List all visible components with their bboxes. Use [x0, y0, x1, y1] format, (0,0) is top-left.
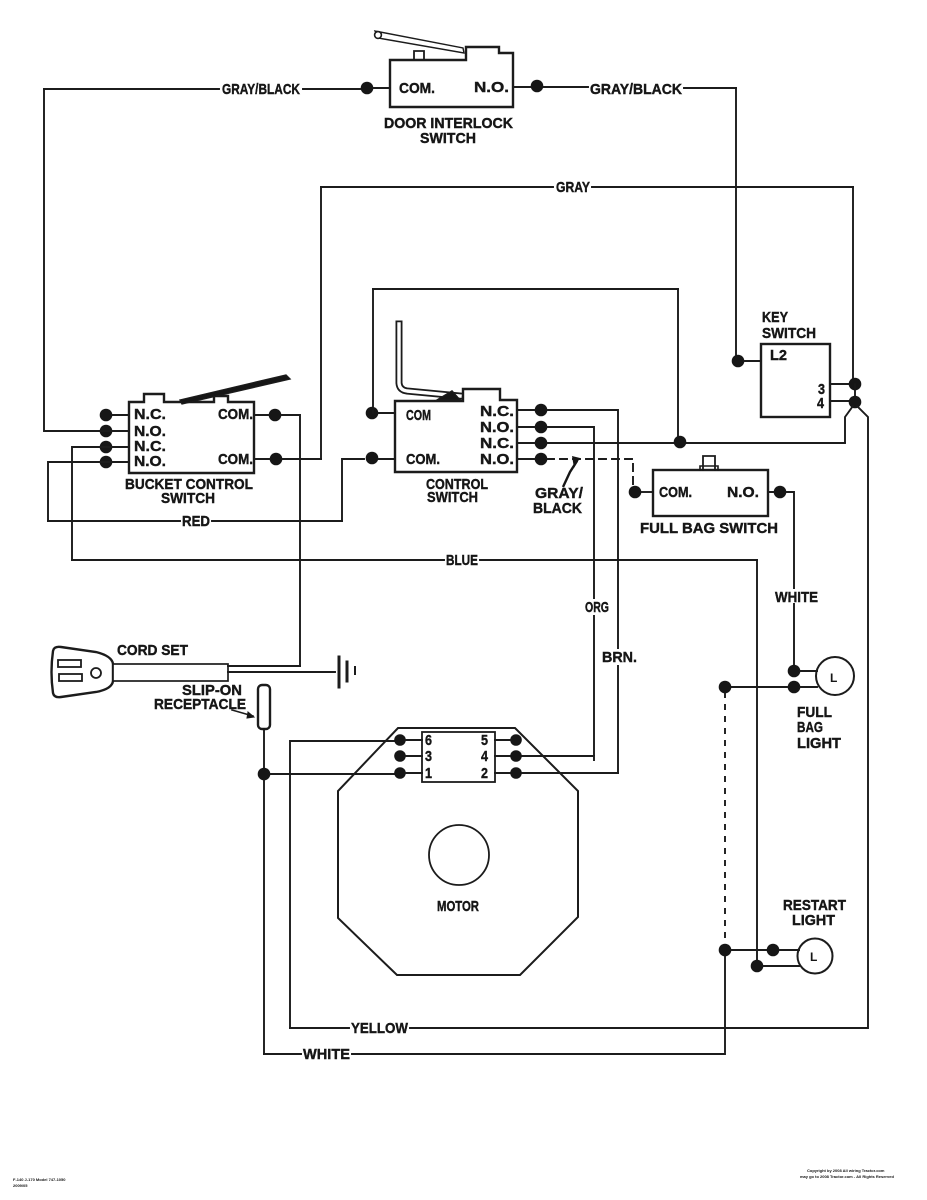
wire gray/black dashed jumper to full bag switch — [547, 459, 633, 486]
svg-text:2: 2 — [481, 765, 488, 782]
node door N.O. terminal — [531, 80, 544, 93]
svg-text:SWITCH: SWITCH — [427, 489, 478, 506]
wire receptacle down to junction — [263, 729, 265, 768]
svg-text:N.O.: N.O. — [727, 484, 759, 501]
wire gray right vertical to key switch pin 3 — [852, 187, 854, 384]
wire BLUE line — [72, 559, 757, 561]
wire top loop vertical down to junction — [677, 289, 679, 442]
wire control lower COM stub — [378, 458, 395, 460]
wire key pin3-pin4 link — [854, 384, 856, 402]
node motor pin2 — [510, 767, 522, 779]
door interlock actuator button — [414, 51, 424, 59]
node full bag COM terminal — [629, 486, 642, 499]
node door COM terminal — [361, 82, 374, 95]
node key pin3 terminal — [849, 378, 862, 391]
svg-text:KEY: KEY — [762, 309, 788, 326]
wire bucket pin3 to blue — [72, 447, 129, 560]
gray/black jumper arrow — [563, 461, 577, 487]
wire bucket pin2 stub — [100, 430, 129, 432]
node bucket N.C. pin1 — [100, 409, 113, 422]
wire key pin3 stub — [830, 383, 849, 385]
receptacle pointer line — [232, 710, 253, 716]
wire motor pin6 stub — [405, 739, 422, 741]
door interlock switch U1 body — [390, 47, 513, 107]
node control N.O. pin2 — [535, 421, 548, 434]
svg-text:WHITE: WHITE — [775, 589, 818, 606]
wire motor pin5 stub — [495, 739, 511, 741]
svg-text:BLUE: BLUE — [446, 552, 478, 569]
node control N.C. pin1 — [535, 404, 548, 417]
wire dashed vertical to restart light — [724, 693, 726, 945]
node motor pin5 — [510, 734, 522, 746]
svg-text:N.O.: N.O. — [480, 419, 514, 436]
svg-text:COM.: COM. — [406, 451, 440, 468]
svg-text:may go to 2008 Tractor.com - A: may go to 2008 Tractor.com - All Rights … — [800, 1174, 894, 1179]
svg-text:F-140 J-170 Model 747-1050: F-140 J-170 Model 747-1050 — [13, 1177, 66, 1182]
node junction top-loop / pin3 wire — [674, 436, 687, 449]
label BRN. — [599, 649, 640, 665]
node receptacle / motor pin1 junction — [258, 768, 271, 781]
svg-text:CORD SET: CORD SET — [117, 642, 188, 659]
wire restart corner down to white line — [724, 956, 726, 1052]
wire door COM stub — [373, 87, 390, 89]
svg-text:YELLOW: YELLOW — [351, 1020, 409, 1037]
motor M1 octagon body — [338, 728, 578, 975]
svg-text:SWITCH: SWITCH — [762, 325, 816, 342]
svg-text:N.O.: N.O. — [474, 79, 509, 96]
svg-text:5: 5 — [481, 732, 488, 749]
node bucket N.O. pin4 — [100, 456, 113, 469]
wire gray left vertical to bucket lower COM — [320, 187, 322, 459]
svg-text:Copyright by 2008 All wiring T: Copyright by 2008 All wiring Tractor.com — [807, 1168, 885, 1173]
cord set cable jacket — [113, 664, 228, 681]
node motor pin4 — [510, 750, 522, 762]
node key switch L1 terminal — [732, 355, 745, 368]
wire restart terminal a stub — [779, 949, 799, 951]
wire motor pin6 to yellow — [290, 741, 394, 1028]
node control N.C. pin3 — [535, 437, 548, 450]
svg-text:RECEPTACLE: RECEPTACLE — [154, 696, 246, 713]
svg-text:MOTOR: MOTOR — [437, 898, 479, 915]
node control N.O. pin4 — [535, 453, 548, 466]
svg-text:N.C.: N.C. — [134, 406, 166, 423]
motor terminal block — [422, 732, 495, 782]
svg-text:4: 4 — [817, 395, 825, 412]
node motor pin6 — [394, 734, 406, 746]
wire control upper COM stub — [378, 412, 395, 414]
node bucket lower COM terminal — [270, 453, 283, 466]
wire bucket pin1 stub — [112, 414, 129, 416]
wire motor pin1 horizontal — [270, 773, 394, 775]
control switch lever foot — [437, 391, 460, 400]
svg-text:COM.: COM. — [218, 406, 253, 423]
svg-text:WHITE: WHITE — [303, 1046, 350, 1063]
wire motor pin3 stub — [405, 755, 422, 757]
node bucket upper COM terminal — [269, 409, 282, 422]
wire key pin4 jog left to long horizontal — [845, 406, 853, 442]
svg-text:BRN.: BRN. — [602, 649, 637, 666]
control switch S2 body — [395, 389, 517, 472]
node restart light terminal b — [751, 960, 764, 973]
node restart light terminal a — [767, 944, 780, 957]
wire red vertical to control lower COM — [342, 459, 364, 521]
door interlock lever tip roller — [375, 32, 382, 39]
wire control pin4 stub — [517, 458, 535, 460]
wire full bag COM stub — [641, 491, 653, 493]
node full bag light terminal b — [788, 681, 801, 694]
wire control pin1 to BRN vertical — [517, 410, 618, 773]
node restart wire corner — [719, 944, 732, 957]
bucket control switch lever — [180, 375, 290, 404]
wire key pin4 jog right to right-side vertical — [857, 406, 868, 1026]
full bag switch S4 body — [653, 470, 768, 516]
cord set plug ground hole — [91, 668, 101, 678]
svg-text:BLACK: BLACK — [533, 500, 582, 517]
wire key L1 stub — [744, 360, 761, 362]
restart light L2 lamp — [798, 939, 833, 974]
svg-text:3: 3 — [425, 748, 432, 765]
wire YELLOW line — [290, 1027, 868, 1029]
label ORG — [582, 599, 612, 615]
cord set plug prong slot 1 — [58, 660, 81, 667]
wire cord conductor lower — [228, 671, 335, 673]
svg-text:GRAY: GRAY — [556, 179, 590, 196]
slip-on receptacle body — [258, 685, 270, 729]
wire motor pin1 stub — [405, 772, 422, 774]
svg-text:L: L — [810, 950, 817, 964]
node control lower COM terminal — [366, 452, 379, 465]
wire bucket lower COM stub — [254, 458, 270, 460]
svg-text:6: 6 — [425, 732, 432, 749]
svg-text:RED: RED — [182, 513, 210, 530]
node bucket N.O. pin2 — [100, 425, 113, 438]
wire control upper COM vertical up — [372, 289, 374, 413]
svg-text:SWITCH: SWITCH — [420, 130, 476, 147]
node full bag N.O. terminal — [774, 486, 787, 499]
wire RED line — [48, 520, 342, 522]
wire WHITE bottom line — [264, 1053, 725, 1055]
cord set plug prong slot 2 — [59, 674, 82, 681]
wire top loop horizontal — [373, 288, 678, 290]
node motor pin3 — [394, 750, 406, 762]
svg-text:COM.: COM. — [218, 451, 253, 468]
svg-text:4: 4 — [481, 748, 489, 765]
svg-text:GRAY/BLACK: GRAY/BLACK — [222, 81, 300, 98]
wire GRAY/BLACK left segment — [44, 88, 360, 90]
svg-text:N.C.: N.C. — [480, 403, 514, 420]
connector jack J1 bars — [338, 657, 341, 687]
node dashed jumper corner — [719, 681, 732, 694]
svg-text:GRAY/BLACK: GRAY/BLACK — [590, 81, 682, 98]
wire blue vertical down to restart light — [756, 560, 758, 960]
wire bucket pin4 to red — [48, 462, 129, 521]
wire motor pin4 to ORG vertical — [495, 756, 594, 760]
node full bag light terminal a — [788, 665, 801, 678]
svg-text:LIGHT: LIGHT — [792, 912, 835, 929]
svg-text:COM.: COM. — [659, 484, 692, 501]
full bag light L1 lamp — [816, 657, 854, 695]
control switch lever — [399, 324, 460, 396]
svg-text:1: 1 — [425, 765, 432, 782]
svg-text:SWITCH: SWITCH — [161, 490, 215, 507]
wire lamp terminal a stub — [800, 670, 817, 672]
svg-text:COM: COM — [406, 407, 431, 424]
node motor pin1 — [394, 767, 406, 779]
node key pin4 terminal — [849, 396, 862, 409]
wire bucket lower COM to gray vertical — [282, 458, 321, 460]
svg-text:L: L — [830, 671, 837, 685]
wire GRAY/BLACK right segment — [513, 87, 736, 88]
wire control pin2 to ORG vertical — [517, 427, 594, 755]
svg-text:N.C.: N.C. — [480, 435, 514, 452]
wire bucket upper COM down to cord set — [281, 415, 300, 666]
wire restart top horizontal — [731, 949, 767, 951]
door interlock lever — [375, 31, 464, 53]
wire lamp terminal b stub — [800, 686, 817, 688]
node control upper COM terminal — [366, 407, 379, 420]
svg-text:N.O.: N.O. — [480, 451, 514, 468]
wire junction down to white line — [263, 780, 265, 1054]
svg-text:FULL BAG SWITCH: FULL BAG SWITCH — [640, 520, 778, 537]
wire GRAY horizontal — [321, 186, 853, 188]
wire restart terminal b stub — [763, 965, 799, 967]
key switch S3 body — [761, 344, 830, 417]
wire bucket upper COM stub — [254, 414, 269, 416]
wire motor pin2 to BRN vertical — [495, 772, 618, 774]
svg-text:N.O.: N.O. — [134, 453, 166, 470]
svg-text:BAG: BAG — [797, 719, 823, 736]
full bag switch button — [703, 456, 715, 470]
wire control pin3 long horizontal to key pin4 — [517, 442, 845, 444]
wire cord conductor upper — [228, 665, 300, 667]
bucket control switch S1 body — [129, 394, 254, 473]
svg-text:LIGHT: LIGHT — [797, 735, 841, 752]
wire full bag N.O. white wire down to full bag light — [768, 492, 794, 665]
cord set plug P1 — [52, 647, 114, 697]
wire gray/black right vertical to key switch L1 — [735, 88, 737, 361]
wire key pin4 stub — [830, 400, 849, 402]
svg-text:ORG: ORG — [585, 599, 609, 616]
wire left vertical (gray/black to bucket N.O.) — [44, 89, 100, 431]
wire lamp b to dashed node — [725, 686, 788, 688]
node bucket N.C. pin3 — [100, 441, 113, 454]
svg-text:COM.: COM. — [399, 80, 435, 97]
svg-text:L2: L2 — [770, 347, 787, 364]
motor shaft circle — [429, 825, 489, 885]
svg-text:2009/05: 2009/05 — [13, 1183, 28, 1188]
